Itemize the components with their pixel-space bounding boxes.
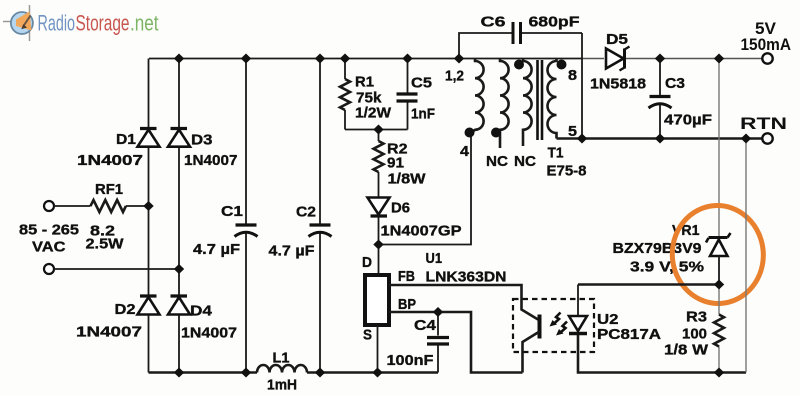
svg-text:L1: L1 [273, 350, 290, 367]
wire drain to pin 4 [379, 132, 472, 245]
optocoupler U2 dashed box [513, 299, 594, 352]
svg-text:4.7 µF: 4.7 µF [269, 243, 315, 260]
svg-text:Storage: Storage [76, 11, 130, 36]
svg-text:85 - 265: 85 - 265 [19, 222, 79, 239]
svg-text:LNK363DN: LNK363DN [426, 269, 507, 286]
svg-text:150mA: 150mA [741, 35, 792, 54]
svg-text:D4: D4 [190, 303, 213, 320]
svg-text:C5: C5 [411, 75, 432, 92]
opto phototransistor [522, 299, 540, 373]
svg-text:.net: .net [130, 11, 159, 36]
junction zener anode node [714, 280, 724, 290]
capacitor C4 [387, 312, 450, 373]
svg-text:D1: D1 [116, 131, 136, 148]
junction D3 top rail [174, 54, 184, 64]
svg-text:D5: D5 [606, 31, 628, 48]
junction C6 RTN [577, 134, 587, 144]
svg-text:680pF: 680pF [529, 14, 580, 31]
junction RF1 to bridge [143, 201, 153, 211]
wire input top [54, 205, 149, 207]
svg-text:BP: BP [398, 296, 416, 313]
resistor R2 [374, 130, 427, 199]
wire input bottom [54, 268, 179, 270]
svg-text:FB: FB [398, 268, 415, 285]
junction input to bridge [174, 264, 184, 274]
wire BP [389, 312, 523, 373]
resistor RF1 [86, 181, 126, 253]
svg-text:1/8 W: 1/8 W [664, 342, 709, 359]
junction C3 RTN [655, 134, 665, 144]
svg-text:T1: T1 [548, 145, 564, 162]
wire secondary RTN line [557, 137, 763, 140]
svg-text:4: 4 [460, 143, 470, 160]
svg-text:E75-8: E75-8 [547, 163, 587, 180]
capacitor C3 [649, 59, 713, 139]
wire bridge column D3 D4 [178, 59, 180, 373]
junction VR1 branch 5V rail [714, 54, 724, 64]
opto light arrows [550, 313, 568, 336]
svg-text:C4: C4 [414, 317, 437, 334]
polarity dot secondary [557, 60, 567, 70]
junction R1 top rail [340, 54, 350, 64]
transformer winding 3 [523, 59, 532, 147]
wire left bridge column D1 D2 [148, 59, 150, 373]
resistor R3 [664, 285, 724, 373]
svg-text:D6: D6 [391, 200, 410, 217]
svg-text:1mH: 1mH [267, 377, 297, 394]
wire S pin [377, 325, 379, 373]
junction R2 top [373, 125, 383, 135]
svg-text:R3: R3 [686, 309, 707, 326]
svg-text:NC: NC [486, 153, 508, 170]
svg-text:PC817A: PC817A [597, 326, 661, 343]
junction C3 5V rail [655, 54, 665, 64]
junction D4 ground bus [174, 368, 184, 378]
svg-text:Radio: Radio [38, 11, 76, 36]
capacitor C6 [459, 14, 582, 59]
opto LED [569, 285, 587, 334]
junction S pin ground bus [372, 368, 382, 378]
svg-text:U1: U1 [426, 250, 443, 267]
junction C2 ground bus [315, 368, 325, 378]
svg-text:1N4007: 1N4007 [184, 152, 238, 169]
junction C4 BP [433, 307, 443, 317]
capacitor C2 [269, 204, 332, 260]
svg-text:1/2W: 1/2W [355, 105, 392, 122]
svg-text:RF1: RF1 [95, 181, 123, 198]
svg-text:C2: C2 [296, 204, 316, 221]
svg-text:S: S [363, 327, 372, 344]
svg-text:VAC: VAC [32, 239, 66, 256]
svg-text:C3: C3 [665, 75, 685, 92]
wire top rail [149, 58, 583, 60]
wire C6 to RTN [581, 33, 583, 139]
wire C1 column [245, 59, 247, 373]
svg-text:D3: D3 [191, 132, 213, 149]
svg-text:1,2: 1,2 [445, 68, 464, 85]
svg-text:2.5W: 2.5W [86, 236, 125, 253]
diode D3 [168, 129, 238, 170]
svg-text:470µF: 470µF [664, 112, 712, 129]
svg-text:C1: C1 [221, 203, 243, 220]
inductor L1 [257, 365, 307, 373]
junction C1 ground bus [241, 368, 251, 378]
junction C2 top rail [315, 54, 325, 64]
svg-text:NC: NC [514, 153, 536, 170]
svg-text:D2: D2 [115, 301, 136, 318]
transformer T1 winding 1 primary [471, 59, 484, 134]
terminal RTN [762, 133, 772, 143]
junction C6 tap [454, 54, 464, 64]
diode D1 [77, 129, 160, 170]
diode D2 [76, 296, 160, 341]
svg-text:C6: C6 [481, 14, 506, 31]
polarity dot winding3 [514, 60, 524, 70]
capacitor C5 [397, 59, 436, 130]
resistor R1 [340, 59, 392, 130]
polarity dot winding1 [465, 128, 475, 138]
wire secondary feedback bottom [578, 335, 746, 373]
wire C2 column [319, 59, 321, 373]
wire FB [389, 285, 522, 299]
terminal input bottom [44, 264, 54, 274]
svg-text:91: 91 [387, 155, 404, 172]
wire feedback LED to zener [578, 283, 719, 286]
diode D4 [168, 296, 237, 342]
svg-text:4.7 µF: 4.7 µF [193, 241, 240, 258]
junction drain node [373, 240, 383, 250]
wire 5V to VR1 branch [718, 59, 720, 239]
terminal 5V [762, 53, 772, 63]
svg-text:1N4007: 1N4007 [181, 325, 237, 342]
wire bottom ground bus [149, 371, 439, 374]
junction RTN drop [741, 134, 751, 144]
svg-text:1/8W: 1/8W [388, 171, 427, 188]
svg-text:1nF: 1nF [411, 106, 435, 123]
junction C5 top rail [402, 54, 412, 64]
svg-text:D: D [362, 254, 372, 271]
svg-text:3.9 V, 5%: 3.9 V, 5% [630, 259, 704, 276]
svg-text:1N4007: 1N4007 [77, 152, 143, 169]
svg-text:8: 8 [568, 67, 577, 84]
capacitor C1 [193, 203, 258, 258]
transformer core [538, 60, 543, 140]
wire RTN drop [745, 139, 747, 373]
diode D6 [368, 198, 462, 276]
wire R1 C5 join [345, 129, 408, 131]
logo icon circle [3, 5, 33, 41]
IC U1 LNK363DN [362, 250, 507, 344]
svg-text:RTN: RTN [740, 114, 787, 133]
polarity dot winding2 [491, 128, 501, 138]
svg-text:1N4007GP: 1N4007GP [381, 223, 462, 240]
zener diode VR1 [613, 222, 731, 285]
junction R3 bottom [714, 368, 724, 378]
orange annotation circle [669, 202, 767, 306]
logo text RadioStorage.net [38, 11, 159, 36]
terminal input top [44, 201, 54, 211]
transformer winding 2 [500, 59, 509, 149]
diode D5 [590, 31, 646, 93]
svg-text:100nF: 100nF [387, 352, 434, 369]
svg-text:100: 100 [682, 326, 707, 343]
svg-text:1N4007: 1N4007 [76, 324, 142, 341]
svg-text:BZX79B3V9: BZX79B3V9 [613, 240, 702, 257]
svg-text:1N5818: 1N5818 [590, 76, 646, 93]
svg-text:R1: R1 [355, 74, 374, 91]
junction C1 top rail [241, 54, 251, 64]
transformer secondary winding [548, 59, 557, 139]
